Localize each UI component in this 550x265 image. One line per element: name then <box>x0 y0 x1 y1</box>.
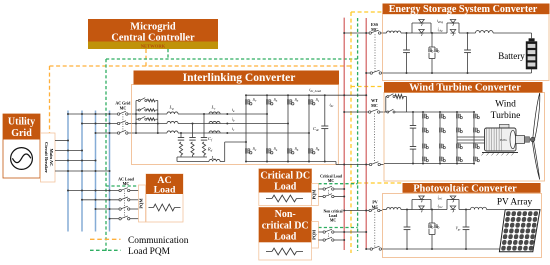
svg-text:Turbine: Turbine <box>491 111 521 121</box>
transistor PV half-bridge <box>431 209 433 211</box>
transistor WT S16 <box>474 157 479 162</box>
transistor ESS chopper 2 upper <box>450 20 456 26</box>
capacitor ESS output <box>467 32 469 34</box>
svg-text:Circuit Breaker: Circuit Breaker <box>44 142 49 173</box>
resistor precharge 3 <box>147 118 155 121</box>
transistor WT S10 <box>457 128 462 133</box>
wire ESS bottom rail <box>383 72 532 74</box>
wire to AC load PQM 2 <box>130 199 139 201</box>
wire non-critical feed 2 <box>318 239 323 241</box>
inductor ESS output choke <box>476 31 494 33</box>
node DC bus rail A <box>343 18 345 250</box>
switch AC grid MC contact phase a <box>117 113 119 115</box>
svg-text:MC: MC <box>372 205 379 210</box>
capacitor PV output <box>465 209 467 211</box>
transistor S5 <box>267 99 273 105</box>
wire non-critical feed 1 <box>318 231 323 233</box>
svg-text:MC: MC <box>328 179 335 183</box>
switch WT MC contact - <box>369 163 371 165</box>
resistor AC load <box>149 207 154 209</box>
wire interlinking to DC bus top <box>343 94 345 96</box>
wire WT MC feed - <box>344 164 369 166</box>
meter PQM strip (critical) <box>312 184 319 206</box>
svg-text:MC: MC <box>371 27 378 32</box>
wire phase b inside panel <box>132 123 168 125</box>
switch non-critical MC contact 2 <box>323 239 325 241</box>
transistor S8 <box>309 148 315 154</box>
converter WT panel <box>384 93 545 182</box>
inductor Lg phase b <box>167 121 178 123</box>
switch non-critical MC linkage <box>328 233 330 239</box>
capacitor Cdc <box>324 95 326 126</box>
wire critical feed 2 <box>318 196 323 198</box>
switch ESS MC contact + <box>369 32 371 34</box>
transistor ESS chopper lower <box>419 30 425 36</box>
switch PV MC contact + <box>369 209 371 211</box>
wire WT bridge leg 1 <box>422 112 424 164</box>
resistor critical DC load <box>266 198 272 200</box>
transistor PV chopper 2 lower <box>450 206 456 212</box>
relay precharge group left vertical <box>135 101 137 134</box>
resistor Rd branch 2 <box>191 142 194 155</box>
converter interlinking panel <box>132 85 339 165</box>
wire PV MC feed - <box>366 248 370 250</box>
wire load-PQM branch to AC Load PQM <box>106 185 139 187</box>
wire interlinking DC- bus <box>246 161 336 163</box>
transistor ESS half-bridge <box>431 32 433 34</box>
svg-text:Wind: Wind <box>495 100 516 110</box>
transistor WT S4 <box>423 157 428 162</box>
wire ESS MC feed - <box>366 72 370 74</box>
wire bridge leg 1 <box>245 95 247 161</box>
wire communication branch to PV converter <box>351 182 403 184</box>
wire to AC load PQM 4 <box>130 218 139 220</box>
inductor PV input choke <box>387 207 401 209</box>
wire neutral to bridge leg1 <box>224 142 226 162</box>
wire interlinking DC+ bus <box>246 94 366 96</box>
capacitor Cf branch 1 <box>180 132 182 134</box>
wire PV chopper loop 2 <box>447 199 459 201</box>
wire WT bridge leg 2 <box>439 112 441 164</box>
wire PV MC feed + <box>344 210 369 212</box>
svg-text:Critical Load: Critical Load <box>320 175 343 179</box>
wire ESS top rail <box>383 32 387 34</box>
switch AC grid MC contact phase b <box>117 122 119 124</box>
capacitor Cf branch 2 <box>192 123 194 125</box>
transistor PV chopper 2 upper <box>450 196 456 202</box>
wire AC load feeder 4 <box>110 218 119 220</box>
transistor ESS chopper upper <box>419 20 425 26</box>
inductor ESS input choke <box>387 31 401 33</box>
wire neutral drop <box>176 157 178 162</box>
wire to AC load PQM 1 <box>130 190 139 192</box>
svg-text:Interlinking Converter: Interlinking Converter <box>183 72 296 84</box>
svg-text:MC: MC <box>123 181 130 186</box>
transistor S2 <box>246 148 252 154</box>
svg-text:NETWORK: NETWORK <box>141 44 166 49</box>
wire bridge leg 2 <box>266 95 268 161</box>
switch critical load MC contact 2 <box>323 195 325 197</box>
transistor S1 <box>309 99 315 105</box>
node DC bus rail B <box>365 18 367 249</box>
wire load-PQM dashed from MCC down <box>167 49 169 59</box>
svg-text:Utility: Utility <box>8 117 35 128</box>
wire phase c into panel <box>128 132 167 134</box>
svg-text:Non-: Non- <box>275 209 296 220</box>
wire WT bridge leg 3 <box>456 112 458 164</box>
switch WT MC contact + <box>369 111 371 113</box>
svg-text:Battery: Battery <box>498 51 525 61</box>
wire WT DC+ rail <box>407 111 475 113</box>
transistor WT S6 <box>440 128 445 133</box>
wire breaker output 3 <box>55 160 96 162</box>
svg-text:PQM: PQM <box>311 230 316 240</box>
inductor PV output choke <box>471 207 487 209</box>
inductor Lc phase a <box>209 112 220 114</box>
capacitor WT dclink lower <box>410 146 416 148</box>
source AC generator symbol <box>11 148 33 170</box>
wire critical feed 1 <box>318 188 323 190</box>
wire phase a to leg2 <box>178 113 267 115</box>
wire AC load feeder 3 <box>96 208 119 210</box>
legend load PQM <box>90 249 121 251</box>
wire load-PQM branch non-critical DC load <box>318 227 357 229</box>
svg-text:critical DC: critical DC <box>262 220 309 231</box>
wire WT MC feed + <box>344 111 368 113</box>
shaft <box>516 136 525 144</box>
transistor WT S12 <box>457 157 462 162</box>
svg-text:Load: Load <box>274 232 297 243</box>
wire breaker output 4 <box>55 170 110 172</box>
wire phase c inside panel <box>132 132 168 134</box>
switch ESS MC contact - <box>370 72 372 74</box>
switch precharge relay 2 <box>136 109 139 111</box>
wire AC load feeder 1 <box>68 190 119 192</box>
wire communication horizontal bus y=66 <box>50 65 352 67</box>
inductor Lc phase c <box>209 131 220 133</box>
wire AC phase c to interlinking <box>96 132 118 134</box>
wire load-PQM left vertical x=106 <box>105 59 107 251</box>
inductor Ln neutral <box>177 161 209 163</box>
meter PQM strip (non-critical) <box>312 222 319 249</box>
load critical DC load box <box>259 169 312 206</box>
wire ESS chopper loop 2 <box>447 22 459 24</box>
switch critical load MC contact 1 <box>323 188 325 190</box>
svg-text:Non critical: Non critical <box>323 209 342 213</box>
switch PV MC contact - <box>370 248 372 250</box>
svg-text:PQM: PQM <box>311 190 316 200</box>
wire WT DC- rail <box>384 163 474 165</box>
transistor S6 <box>288 148 294 154</box>
transistor PV chopper upper <box>419 196 425 202</box>
node AC bus phase line 1 <box>67 111 69 232</box>
breaker main AC circuit breaker box <box>41 133 56 182</box>
svg-text:Critical DC: Critical DC <box>260 170 310 181</box>
switch AC load MC contact 1 <box>119 189 121 191</box>
wire communication branch to ESS converter <box>351 11 383 13</box>
svg-text:MC: MC <box>371 103 378 108</box>
switch AC grid MC contact phase c <box>117 132 119 134</box>
wire bridge leg 3 <box>287 95 289 161</box>
wire communication branch to WT converter <box>351 86 384 88</box>
node AC bus phase line 4 <box>109 111 111 232</box>
wire communication vertical x=351 <box>350 12 352 253</box>
inductor Lc phase b <box>209 121 220 123</box>
switch PV MC linkage <box>374 212 376 248</box>
resistor precharge 1 <box>147 99 155 102</box>
svg-text:Energy Storage System Converte: Energy Storage System Converter <box>389 4 538 15</box>
generator PMSG <box>500 124 510 128</box>
wire communication dashed from MCC down <box>145 49 147 67</box>
svg-text:Load: Load <box>274 181 297 192</box>
wire WT entry <box>384 111 386 113</box>
converter PV panel <box>383 194 542 258</box>
wire breaker output 2 <box>55 150 82 152</box>
converter ESS panel <box>383 14 550 81</box>
wire phase c to leg4 <box>178 132 309 134</box>
wire WT phase outputs <box>457 136 485 138</box>
wire load-PQM branch critical DC load <box>318 183 357 185</box>
svg-text:MC: MC <box>120 105 127 110</box>
switch critical load MC linkage <box>328 190 330 196</box>
switch AC load MC contact 2 <box>119 199 121 201</box>
switch AC grid MC linkage <box>122 114 124 133</box>
svg-text:PQM: PQM <box>138 198 143 209</box>
transistor WT S5 <box>440 114 445 119</box>
transistor WT S13 <box>474 114 479 119</box>
wire PV bottom rail <box>383 248 501 250</box>
wire AC phase a to interlinking <box>68 113 117 115</box>
transistor S4 <box>267 148 273 154</box>
wind turbine blades <box>530 137 535 142</box>
wire phase b to leg3 <box>178 123 288 125</box>
wire PV chopper loop <box>412 199 431 201</box>
capacitor WT dclink upper <box>412 111 414 113</box>
svg-text:Load: Load <box>154 185 176 196</box>
wire phase a inside panel <box>132 113 168 115</box>
wire ESS MC feed + <box>344 32 369 34</box>
wire to AC load PQM 3 <box>130 208 139 210</box>
svg-text:PMSG: PMSG <box>500 139 508 142</box>
wire AC load feeder 2 <box>82 199 119 201</box>
wire phase a into panel <box>128 113 167 115</box>
source utility grid box <box>3 114 40 178</box>
svg-text:Load: Load <box>329 214 338 218</box>
wire load-PQM horizontal bus y=59 <box>106 58 358 60</box>
switch precharge relay 1 <box>136 100 139 102</box>
relay precharge group right vertical <box>157 101 159 134</box>
inductor Lg phase a <box>167 112 178 114</box>
switch AC load MC linkage <box>123 191 125 219</box>
wire communication drop to main breaker <box>49 66 51 133</box>
generator base <box>482 152 518 154</box>
wire phase b into panel <box>128 123 167 125</box>
svg-text:Grid: Grid <box>11 128 32 139</box>
transistor WT S2 <box>423 128 428 133</box>
transistor WT S1 <box>423 114 428 119</box>
wire ESS chopper loop <box>412 22 431 24</box>
node AC bus phase line 2 <box>81 111 83 232</box>
resistor non-critical DC load <box>266 251 272 253</box>
switch WT MC linkage <box>374 113 376 163</box>
transistor WT S7 <box>440 144 445 149</box>
transistor WT S3 <box>423 144 428 149</box>
transistor WT S15 <box>474 144 479 149</box>
switch AC load MC contact 3 <box>119 208 121 210</box>
transistor WT S8 <box>440 157 445 162</box>
switch WT precharge lower <box>385 111 388 113</box>
load non-critical DC load box <box>259 207 312 260</box>
capacitor Cf branch 3 <box>203 113 205 115</box>
switch non-critical MC contact 1 <box>323 231 325 233</box>
resistor WT precharge <box>395 95 403 99</box>
wire WT bridge leg 4 <box>473 112 475 164</box>
transistor ESS chopper 2 lower <box>450 30 456 36</box>
inductor Lg phase c <box>167 131 178 133</box>
svg-text:MC: MC <box>330 218 337 222</box>
legend communication <box>90 238 121 240</box>
transistor WT S9 <box>457 114 462 119</box>
svg-text:Communication: Communication <box>128 236 189 246</box>
switch WT precharge upper <box>385 96 388 98</box>
node AC bus phase line 3 <box>95 111 97 232</box>
wire breaker output 1 <box>55 140 68 142</box>
resistor Rd branch 3 <box>202 142 205 155</box>
load AC load box <box>146 174 183 222</box>
switch AC load MC contact 4 <box>119 218 121 220</box>
wire filter star rail <box>177 156 207 158</box>
svg-text:Microgrid: Microgrid <box>130 22 176 33</box>
switch ESS MC linkage <box>374 34 376 72</box>
resistor precharge 2 <box>147 109 155 112</box>
transistor S7 <box>246 99 252 105</box>
svg-text:PV Array: PV Array <box>497 197 533 207</box>
wire bridge leg 4 <box>308 95 310 161</box>
capacitor PV input <box>406 209 408 211</box>
svg-text:Photovoltaic Converter: Photovoltaic Converter <box>413 183 517 194</box>
meter PQM strip (AC load) <box>139 185 146 222</box>
svg-text:Central Controller: Central Controller <box>111 32 195 43</box>
transistor WT S11 <box>457 144 462 149</box>
wire PV top rail <box>383 209 387 211</box>
svg-text:Load PQM: Load PQM <box>128 247 171 257</box>
controller MCC box <box>88 19 218 42</box>
switch precharge relay 3 <box>136 118 139 120</box>
wire load-PQM right vertical x=357.5 <box>357 18 359 251</box>
svg-text:Wind Turbine Converter: Wind Turbine Converter <box>409 83 521 94</box>
transistor PV chopper lower <box>419 206 425 212</box>
transistor WT S14 <box>474 128 479 133</box>
wire AC phase b to interlinking <box>82 123 117 125</box>
transistor S3 <box>288 99 294 105</box>
capacitor ESS input <box>406 32 408 34</box>
battery <box>531 33 533 38</box>
resistor Rd branch 1 <box>179 142 182 155</box>
